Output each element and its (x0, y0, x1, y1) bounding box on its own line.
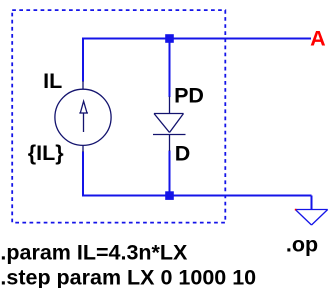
current source top lead (82, 81, 84, 90)
wire top horizontal (node A) (83, 38, 311, 40)
diode D triangle (154, 114, 184, 133)
svg-text:D: D (175, 142, 191, 166)
current source arrow (79, 101, 88, 132)
ground symbol (295, 210, 327, 226)
wire left vertical to current source (82, 38, 84, 82)
wire diode cathode (169, 151, 171, 196)
diode anode lead (symbol) (169, 97, 171, 114)
current source I1 circle (55, 89, 111, 145)
wire down to ground (311, 196, 313, 210)
svg-text:A: A (310, 27, 326, 51)
junction node top (165, 34, 174, 43)
ground red anchor dot (295, 209, 297, 211)
svg-text:.step param LX 0 1000 10: .step param LX 0 1000 10 (0, 265, 256, 288)
svg-text:.op: .op (286, 233, 318, 257)
wire bottom horizontal rail (82, 195, 312, 197)
current source bottom lead (82, 145, 84, 152)
diode cathode lead (symbol) (169, 135, 171, 152)
svg-text:{IL}: {IL} (28, 141, 64, 165)
selection box (dashed) (12, 10, 225, 223)
wire diode anode (169, 39, 171, 98)
diode D cathode bar (153, 134, 186, 136)
wire current source bottom to bottom rail (82, 152, 84, 197)
svg-text:.param IL=4.3n*LX: .param IL=4.3n*LX (0, 240, 188, 264)
junction node bottom (165, 191, 174, 200)
svg-text:PD: PD (174, 83, 204, 107)
svg-text:IL: IL (43, 69, 62, 93)
